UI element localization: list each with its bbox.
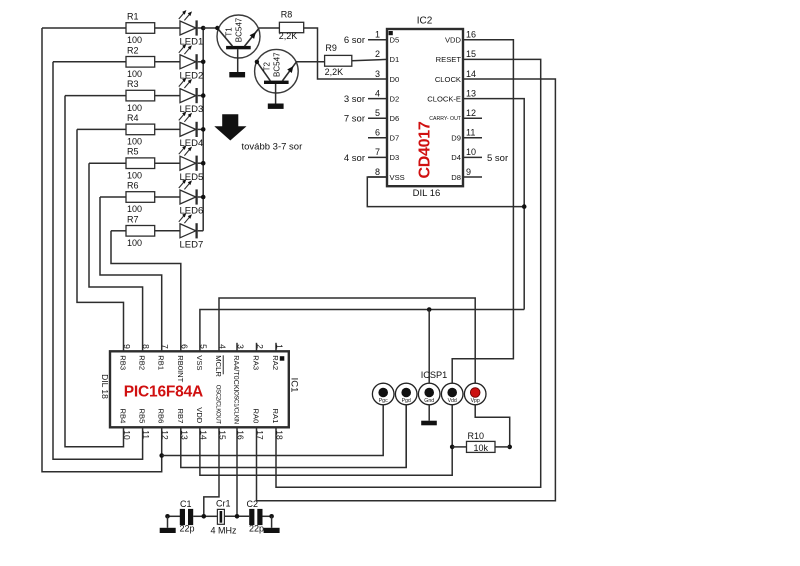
resistor R2 bbox=[53, 45, 155, 79]
svg-text:10: 10 bbox=[122, 430, 132, 440]
resistor R5 bbox=[89, 147, 155, 181]
junction LED bus row 6 bbox=[201, 195, 206, 200]
svg-text:VSS: VSS bbox=[390, 173, 405, 182]
wire VSS net to PIC VSS pin5 bbox=[200, 310, 524, 352]
ground crystal left bbox=[160, 528, 176, 533]
label 3 sor pin4 bbox=[344, 94, 365, 105]
svg-text:4 MHz: 4 MHz bbox=[211, 526, 238, 536]
symbol continue-arrow bbox=[214, 114, 246, 140]
svg-text:D6: D6 bbox=[390, 114, 400, 123]
op-amp U_none IC1 PIC16F84A body bbox=[110, 343, 289, 440]
label 6 sor pin1 bbox=[344, 35, 365, 46]
svg-text:100: 100 bbox=[127, 238, 142, 248]
svg-text:10: 10 bbox=[466, 147, 476, 157]
svg-text:R7: R7 bbox=[127, 214, 139, 224]
svg-text:17: 17 bbox=[255, 430, 265, 440]
svg-text:3: 3 bbox=[375, 69, 380, 79]
crystal Cr1 bbox=[211, 498, 238, 535]
svg-text:12: 12 bbox=[160, 430, 170, 440]
svg-text:8: 8 bbox=[141, 344, 151, 349]
svg-text:D9: D9 bbox=[451, 134, 461, 143]
wire R3 bus to PIC pin 10 bbox=[65, 96, 124, 447]
svg-text:VDD: VDD bbox=[445, 36, 462, 45]
svg-text:CLOCK-E: CLOCK-E bbox=[427, 94, 461, 103]
svg-text:11: 11 bbox=[466, 128, 475, 138]
svg-text:ICSP1: ICSP1 bbox=[421, 370, 448, 380]
svg-text:15: 15 bbox=[466, 49, 476, 59]
label 5 sor pin10 bbox=[487, 153, 508, 164]
svg-text:3: 3 bbox=[236, 344, 246, 349]
junction LED bus row 5 bbox=[201, 161, 206, 166]
svg-text:CD4017: CD4017 bbox=[417, 121, 434, 178]
label DIL 16 bbox=[413, 188, 441, 199]
svg-text:IC1: IC1 bbox=[289, 378, 300, 393]
svg-text:22p: 22p bbox=[249, 524, 264, 534]
LED LED7 bbox=[155, 213, 204, 251]
svg-text:RA4/T0CKI: RA4/T0CKI bbox=[232, 355, 241, 391]
LED LED5 bbox=[155, 145, 204, 183]
junction Vdd / R10 bbox=[450, 445, 455, 450]
LED LED4 bbox=[155, 111, 204, 149]
svg-text:DIL 16: DIL 16 bbox=[413, 188, 441, 199]
svg-text:5 sor: 5 sor bbox=[487, 153, 508, 164]
transistor T1 bbox=[203, 15, 260, 72]
svg-text:5: 5 bbox=[198, 344, 208, 349]
svg-text:RB5: RB5 bbox=[138, 409, 147, 424]
svg-text:R10: R10 bbox=[468, 431, 485, 441]
wire R2 bus to PIC pin 11 bbox=[53, 62, 143, 459]
wire Vpp pad to R10 right bbox=[475, 405, 510, 447]
svg-text:7: 7 bbox=[160, 344, 170, 349]
resistor R6 bbox=[100, 181, 155, 215]
svg-text:2,2K: 2,2K bbox=[325, 67, 344, 77]
svg-text:R4: R4 bbox=[127, 113, 139, 123]
svg-text:11: 11 bbox=[141, 430, 151, 439]
svg-text:PIC16F84A: PIC16F84A bbox=[124, 383, 203, 400]
resistor R10 bbox=[452, 431, 510, 453]
wire PIC OSC1 pin16 to crystal bbox=[236, 427, 238, 516]
svg-text:CARRY- OUT: CARRY- OUT bbox=[429, 116, 462, 122]
svg-text:2,2K: 2,2K bbox=[279, 31, 298, 41]
svg-text:16: 16 bbox=[466, 30, 476, 40]
wire Gnd pad up bbox=[428, 310, 430, 384]
wire Pgd pad down bbox=[405, 405, 407, 468]
wire PIC MCLR pin4 to Vpp pad bbox=[219, 298, 475, 383]
svg-text:IC2: IC2 bbox=[417, 16, 433, 27]
ICSP1 pad Vdd bbox=[441, 383, 463, 405]
svg-text:LED7: LED7 bbox=[180, 239, 204, 250]
junction crystal row c2 bbox=[235, 514, 240, 519]
svg-text:T1: T1 bbox=[225, 27, 234, 37]
resistor R3 bbox=[65, 79, 155, 113]
svg-text:DIL 18: DIL 18 bbox=[100, 374, 110, 399]
svg-text:Pgd: Pgd bbox=[402, 398, 411, 404]
svg-text:Vdd: Vdd bbox=[448, 398, 457, 404]
svg-text:D5: D5 bbox=[390, 36, 400, 45]
wire IC2 VSS pin8 down bbox=[367, 177, 524, 207]
svg-text:18: 18 bbox=[275, 430, 285, 440]
wire R5 bus to PIC pin 8 bbox=[89, 163, 143, 351]
svg-text:C2: C2 bbox=[247, 499, 259, 509]
svg-text:7: 7 bbox=[375, 147, 380, 157]
svg-text:RB2: RB2 bbox=[138, 355, 147, 370]
wire right ground drop bbox=[271, 516, 273, 528]
svg-text:4: 4 bbox=[218, 344, 228, 349]
svg-text:4 sor: 4 sor bbox=[344, 153, 365, 164]
svg-text:RESET: RESET bbox=[436, 55, 462, 64]
LED LED6 bbox=[155, 179, 204, 217]
svg-text:R9: R9 bbox=[325, 43, 337, 53]
svg-text:2: 2 bbox=[375, 49, 380, 59]
wire R6 bus to PIC pin 7 bbox=[100, 197, 162, 351]
svg-text:RB3: RB3 bbox=[119, 355, 128, 370]
svg-text:Vpp: Vpp bbox=[471, 398, 480, 404]
resistor R4 bbox=[77, 113, 155, 147]
label IC1 bbox=[289, 378, 300, 393]
label CD4017 bbox=[417, 121, 434, 178]
wire R1 bus to PIC pin 12 bbox=[42, 28, 162, 472]
resistor R1 bbox=[42, 12, 155, 46]
junction LED bus row 1 bbox=[201, 26, 206, 31]
svg-text:R8: R8 bbox=[281, 10, 293, 20]
ICSP1 pad Pgc bbox=[372, 383, 394, 405]
ground crystal right bbox=[264, 528, 280, 533]
svg-text:BC547: BC547 bbox=[235, 17, 244, 42]
svg-text:R6: R6 bbox=[127, 181, 139, 191]
svg-text:Cr1: Cr1 bbox=[216, 498, 231, 508]
label IC2 bbox=[417, 16, 433, 27]
LED LED1 bbox=[155, 10, 204, 48]
svg-text:3 sor: 3 sor bbox=[344, 94, 365, 105]
junction crystal row right bbox=[269, 514, 274, 519]
svg-text:4: 4 bbox=[375, 88, 380, 98]
svg-text:R3: R3 bbox=[127, 79, 139, 89]
junction PIC pin 12 / Pgc bbox=[159, 453, 164, 458]
label DIL 18 bbox=[100, 374, 110, 399]
transistor T2 bbox=[255, 49, 299, 103]
svg-text:VSS: VSS bbox=[195, 355, 204, 370]
svg-text:Gnd: Gnd bbox=[424, 398, 434, 404]
capacitor C2 bbox=[247, 499, 265, 534]
wire PIC OSC2 pin15 to crystal bbox=[204, 427, 219, 516]
svg-text:100: 100 bbox=[127, 204, 142, 214]
wire T2 emitter to R9 bbox=[296, 61, 325, 63]
label 7 sor pin5 bbox=[344, 114, 365, 125]
svg-text:6: 6 bbox=[179, 344, 189, 349]
wire Gnd pad down bbox=[428, 405, 430, 421]
svg-text:100: 100 bbox=[127, 137, 142, 147]
svg-text:C1: C1 bbox=[180, 499, 192, 509]
svg-text:OSC1/CLKIN: OSC1/CLKIN bbox=[233, 391, 239, 424]
svg-text:9: 9 bbox=[122, 344, 132, 349]
svg-text:RA3: RA3 bbox=[252, 355, 261, 370]
svg-text:12: 12 bbox=[466, 108, 476, 118]
svg-text:MCLR: MCLR bbox=[214, 355, 223, 377]
svg-text:100: 100 bbox=[127, 35, 142, 45]
svg-text:OSC2/CLKOUT: OSC2/CLKOUT bbox=[215, 385, 221, 425]
svg-text:1: 1 bbox=[275, 344, 285, 349]
junction LED bus row 4 bbox=[201, 127, 206, 132]
svg-text:RA2: RA2 bbox=[271, 355, 280, 370]
wire T1 emitter to R8 bbox=[259, 27, 280, 29]
wire R4 bus to PIC pin 9 bbox=[77, 129, 124, 351]
op-amp U_none IC2 CD4017 body bbox=[368, 29, 482, 186]
wire PIC VDD pin14 to Vdd net bbox=[200, 405, 452, 475]
svg-text:100: 100 bbox=[127, 69, 142, 79]
label 4 sor pin7 bbox=[344, 153, 365, 164]
wire Pgc pad to PIC RB6 pin12 bbox=[162, 405, 384, 456]
svg-text:tovább 3-7 sor: tovább 3-7 sor bbox=[242, 141, 303, 152]
junction R10 right bbox=[507, 445, 512, 450]
svg-text:D8: D8 bbox=[451, 173, 461, 182]
svg-text:7 sor: 7 sor bbox=[344, 114, 365, 125]
resistor R9 bbox=[325, 43, 352, 77]
ground ICSP Gnd bbox=[421, 421, 437, 426]
svg-text:R1: R1 bbox=[127, 12, 139, 22]
svg-text:RB4: RB4 bbox=[119, 409, 128, 424]
wire R7 bus to PIC pin 6 bbox=[111, 231, 181, 351]
svg-text:VDD: VDD bbox=[195, 407, 204, 424]
junction LED bus row 2 bbox=[201, 60, 206, 65]
svg-text:D0: D0 bbox=[390, 75, 400, 84]
ground T2 bbox=[268, 104, 284, 109]
wire IC2 CLOCK pin14 to PIC RA0 pin17 bbox=[257, 79, 556, 501]
LED LED3 bbox=[155, 78, 204, 116]
ICSP1 pad Pgd bbox=[395, 383, 417, 405]
label PIC16F84A bbox=[124, 383, 203, 400]
svg-text:14: 14 bbox=[466, 69, 476, 79]
wire R9 to IC2 pin 2 D1 bbox=[352, 59, 387, 60]
svg-text:RB6: RB6 bbox=[157, 409, 166, 424]
svg-text:Pgc: Pgc bbox=[379, 398, 388, 404]
svg-text:22p: 22p bbox=[180, 524, 195, 534]
resistor R7 bbox=[111, 214, 155, 248]
svg-text:D4: D4 bbox=[451, 153, 461, 162]
svg-text:13: 13 bbox=[466, 88, 476, 98]
wire LED cathode bus bbox=[202, 28, 204, 231]
wire PIC RB7 pin13 to Pgd pad bbox=[181, 405, 406, 468]
svg-text:9: 9 bbox=[466, 167, 471, 177]
svg-text:T2: T2 bbox=[262, 61, 271, 71]
svg-text:D3: D3 bbox=[390, 153, 400, 162]
svg-text:10k: 10k bbox=[473, 443, 488, 453]
wire left ground drop bbox=[167, 516, 169, 528]
ICSP1 pad Gnd bbox=[418, 383, 440, 405]
svg-text:CLOCK: CLOCK bbox=[435, 75, 461, 84]
svg-text:RB7: RB7 bbox=[176, 409, 185, 424]
svg-text:RB0INT: RB0INT bbox=[176, 355, 185, 382]
svg-text:R5: R5 bbox=[127, 147, 139, 157]
svg-text:D1: D1 bbox=[390, 55, 400, 64]
LED LED2 bbox=[155, 44, 204, 82]
wire IC2 RESET pin15 to PIC RA1 pin18 bbox=[276, 59, 541, 487]
svg-text:100: 100 bbox=[127, 103, 142, 113]
wire IC2 CLOCK-E pin13 to VSS net bbox=[463, 99, 524, 310]
junction crystal row c1 bbox=[202, 514, 207, 519]
svg-text:D7: D7 bbox=[390, 134, 400, 143]
junction VSS / ICSP Gnd bbox=[427, 307, 432, 312]
junction VSS / CLOCK-E bbox=[522, 204, 527, 209]
ICSP1 pad Vpp bbox=[464, 383, 486, 405]
label ICSP1 bbox=[421, 370, 448, 380]
svg-text:RA0: RA0 bbox=[252, 409, 261, 424]
svg-text:100: 100 bbox=[127, 170, 142, 180]
ground T1 bbox=[229, 72, 245, 77]
svg-text:RA1: RA1 bbox=[271, 409, 280, 424]
svg-text:6 sor: 6 sor bbox=[344, 35, 365, 46]
svg-text:RB1: RB1 bbox=[157, 355, 166, 370]
wire R8 to IC2 pin 3 D0 bbox=[304, 28, 387, 79]
wire crystal row bbox=[168, 515, 272, 517]
svg-text:6: 6 bbox=[375, 128, 380, 138]
junction crystal row left bbox=[165, 514, 170, 519]
svg-text:2: 2 bbox=[255, 344, 265, 349]
svg-text:5: 5 bbox=[375, 108, 380, 118]
svg-text:1: 1 bbox=[375, 30, 380, 40]
label tovabb 3-7 sor bbox=[242, 141, 303, 152]
wire IC2 VDD pin16 to Vdd pad bbox=[452, 40, 513, 383]
junction LED bus row 3 bbox=[201, 93, 206, 98]
svg-text:D2: D2 bbox=[390, 94, 400, 103]
svg-text:R2: R2 bbox=[127, 45, 139, 55]
svg-text:BC547: BC547 bbox=[272, 52, 281, 77]
svg-text:8: 8 bbox=[375, 167, 380, 177]
capacitor C1 bbox=[180, 499, 195, 534]
resistor R8 bbox=[279, 10, 304, 41]
